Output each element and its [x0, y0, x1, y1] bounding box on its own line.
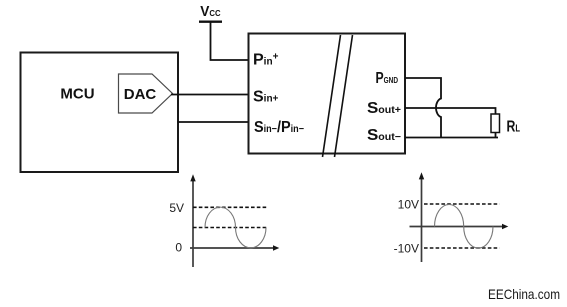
wire DAC to Sin+: [171, 94, 249, 96]
svg-text:MCU: MCU: [60, 86, 94, 103]
wire Sout- to RL bottom: [405, 133, 498, 138]
svg-text:5V: 5V: [169, 201, 184, 215]
svg-text:DAC: DAC: [124, 86, 157, 103]
right waveform v-axis: [421, 178, 423, 262]
left waveform h-axis: [190, 247, 274, 249]
right h-axis arrow: [502, 224, 508, 229]
svg-text:0: 0: [175, 241, 182, 255]
svg-text:EEChina.com: EEChina.com: [488, 286, 560, 302]
left dashed mid level: [193, 227, 268, 229]
svg-text:10V: 10V: [398, 198, 419, 212]
isolation barrier line 2: [335, 35, 353, 157]
left waveform v-axis: [192, 180, 194, 267]
right sine wave: [435, 204, 494, 248]
left sine wave: [205, 207, 266, 248]
wire Sout+ to RL top: [405, 108, 496, 114]
resistor RL: [491, 114, 500, 133]
right dashed -10V level: [424, 247, 500, 249]
left dashed 5V level: [193, 206, 268, 208]
isolation amplifier block: [249, 34, 406, 154]
DAC block: [119, 74, 173, 113]
isolation barrier line 1: [323, 35, 341, 157]
MCU box: [21, 53, 179, 173]
svg-text:-10V: -10V: [394, 242, 419, 256]
wire PGND with crossover hop: [405, 78, 441, 138]
right v-axis arrow: [419, 172, 424, 179]
wire Vcc to Pin+: [211, 22, 250, 60]
wire MCU to Sin-/Pin-: [178, 121, 250, 123]
Vcc rail bar: [199, 21, 222, 23]
left v-axis arrow: [190, 174, 195, 181]
left h-axis arrow: [273, 245, 279, 250]
right waveform h-axis: [410, 226, 504, 228]
right dashed 10V level: [424, 203, 500, 205]
